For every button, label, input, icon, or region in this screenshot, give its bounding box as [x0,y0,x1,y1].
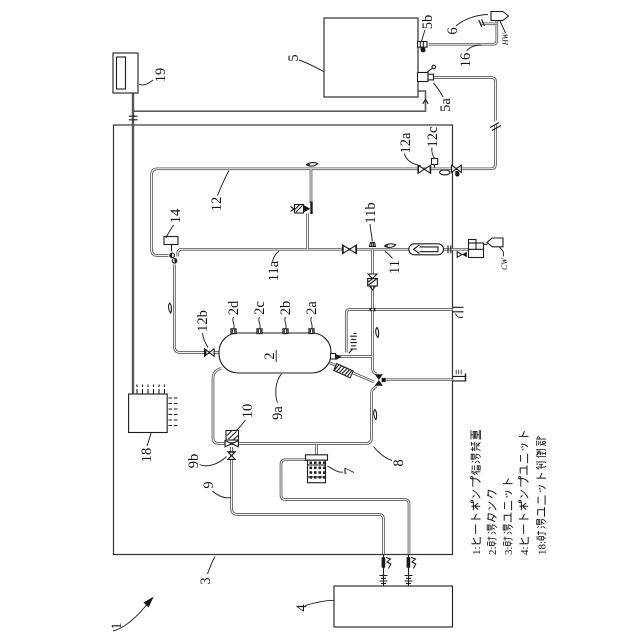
pipe from valve 5a down to line 12 [434,78,496,169]
label 10 [237,404,257,431]
communication wire to box 5 [134,91,426,111]
HW leader diagonal [500,21,506,33]
label 4 [294,600,334,611]
legend line 5 [536,437,549,555]
label 8 [374,447,408,467]
legend line 1 [471,430,484,555]
coupling at pump pipe [405,576,413,584]
svg-text:5a: 5a [438,98,454,112]
label 12b [195,310,211,347]
label 7 [328,466,359,475]
svg-text:7: 7 [342,467,358,474]
actuator 12c [432,159,438,168]
svg-text:9: 9 [201,481,217,488]
relief line at Y310 [346,310,452,353]
label CW [500,248,510,271]
svg-text:11a: 11a [266,260,282,281]
svg-text:2: 2 [262,352,278,359]
svg-text:18: 18 [139,448,155,463]
label 9b [186,454,227,469]
svg-text:1:: 1: [471,546,483,555]
control unit 18 dashed signal ticks right [169,398,178,426]
pipe 9 to heat pump [232,447,384,554]
tank sensor fitting 2c [257,329,262,334]
svg-text:12b: 12b [195,310,211,332]
pipe 8 loop under tank [213,368,377,443]
signal arrowhead near box 5 [423,99,428,103]
label 16 [458,45,482,67]
svg-text:2:: 2: [487,546,499,555]
svg-text:11b: 11b [363,202,379,223]
flow arrow on line 11a [385,244,396,248]
label 2d [226,300,242,329]
tap stem tick [479,19,485,27]
legend line 3 [503,478,515,555]
drain stub with cap at mixing line [453,370,466,382]
wire crossing ticks [129,116,138,120]
cold water inlet pentagon CW [487,238,503,247]
pipe 12 main run [152,169,453,256]
valve 12b [204,348,214,357]
svg-text:18:: 18: [537,541,549,555]
heater element hatched box on hose [334,364,353,378]
label 12a [398,132,421,166]
flow arrow on pipe to 12b [169,303,172,313]
svg-text:12a: 12a [398,132,414,154]
strainer on cold water line [409,244,444,255]
service valve at lower pipe to unit 4 [382,557,391,568]
communication wire 19 to 18 [132,94,134,394]
border crossing flanges cold water [448,245,451,253]
unit 3 enclosure border [114,125,453,555]
svg-text:2c: 2c [252,301,268,315]
label 5a [434,83,455,112]
remote controller 19 [113,53,138,93]
vertical branch 11 [371,249,374,356]
label 5b [420,15,436,42]
check unit on branch of line 12 [291,202,313,215]
label 9 [201,481,231,497]
control unit 18 dashed signal ticks top [137,385,165,394]
circulation pump 7 [306,455,328,483]
svg-text:3: 3 [198,577,214,584]
valve 10 with actuator [225,431,239,447]
heat pump unit box 4 [334,586,453,627]
mixing valve 5a [418,65,436,81]
svg-text:11: 11 [387,260,403,274]
pump 7 loop pipe [281,460,409,554]
label 2 tank [262,350,278,362]
cold water inlet pipe [444,248,470,251]
label 2c [252,301,268,329]
flow arrow on pipe 8 [374,410,377,420]
svg-text:12: 12 [209,197,225,212]
label 3 [198,557,215,585]
svg-text:2d: 2d [226,300,242,315]
control unit box 18 [129,394,168,433]
pump 7 stub [315,445,318,457]
label 11a [266,251,282,281]
tap 6 stub [480,22,497,25]
svg-text:HW: HW [501,31,510,46]
svg-text:14: 14 [168,208,184,223]
label 2b [278,301,294,329]
branch to check unit on line 12 [310,169,313,203]
flow arrow on line 12 [307,163,318,167]
svg-text:3:: 3: [503,546,515,555]
svg-text:16: 16 [458,53,474,68]
svg-text:12c: 12c [425,127,441,148]
svg-text:2a: 2a [304,301,320,315]
valve 9b [227,451,235,459]
label 11 [385,251,403,274]
label 12c [425,127,441,159]
three-way valve 14 [164,237,178,264]
legend line 4 [519,431,532,555]
label 1 with arrow [109,597,154,632]
mixing valve at tank bottom [375,374,386,386]
heater hose diagonal [330,363,375,382]
tank sensor fitting 2d [231,329,236,334]
label 18 [139,433,155,462]
pipe from mixing valve to drain stub [383,378,453,381]
tank bottom outlet pipe [336,357,377,374]
pressure reducing valve [469,240,488,258]
check valve at border on line 12 [452,165,462,176]
svg-text:19: 19 [153,68,169,83]
branch from check unit to line 11a [306,214,309,249]
check valve on branch 11 [368,274,378,290]
svg-text:9a: 9a [270,406,286,420]
pipe break symbol [489,120,502,127]
svg-text:8: 8 [391,459,407,466]
relief valve [349,334,357,354]
junction marks at relief line crossing [370,308,372,311]
svg-text:10: 10 [240,404,256,419]
tank sensor fitting 2a [309,329,314,334]
label 11b [363,202,379,241]
label 14 [166,208,184,238]
svg-text:2b: 2b [278,301,294,316]
coupling at pipe 9 [380,576,388,584]
fitting 11b on line 11a [370,243,376,247]
svg-text:1: 1 [109,622,125,629]
tank sensor fitting 2b [283,329,288,334]
drain valve under cold water inlet [457,252,467,258]
valve 5b [418,42,428,53]
legend line 2 [487,490,499,555]
drain stub at relief line [453,307,464,317]
hot water tap 6 [491,12,509,21]
heating unit box 5 [324,18,418,97]
storage tank 2 [219,333,331,373]
pipe to valve 12b and tank [174,265,218,353]
svg-text:CW: CW [500,257,509,270]
tank bottom fitting with arrow [331,354,342,360]
label 19 [139,68,169,85]
pipe 16 from 5b to tap 6 [429,21,497,45]
flow arrow on branch 11 [376,328,379,338]
svg-text:4:: 4: [519,546,531,555]
pipe 11a [178,249,444,256]
bypass ellipse on line 12 [440,170,450,175]
label 5 [286,54,324,71]
label 12 [209,171,229,212]
svg-text:6: 6 [445,27,461,34]
label 2a [304,301,320,329]
svg-text:9b: 9b [186,454,202,469]
label 6 [445,15,488,35]
service valve at upper pipe to unit 4 [407,557,416,568]
svg-text:5b: 5b [420,15,436,30]
shut valve on line 11a [342,244,357,254]
label 9a [270,374,286,420]
pipes below border to unit 4 [384,555,409,587]
valve 12a [418,165,432,174]
